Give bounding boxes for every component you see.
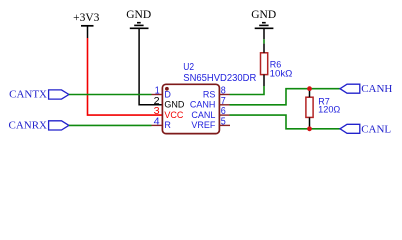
junction dot CANL/R7 (307, 126, 312, 131)
svg-text:CANH: CANH (361, 83, 392, 95)
svg-text:5: 5 (221, 117, 226, 128)
svg-text:CANTX: CANTX (9, 89, 47, 101)
svg-text:VREF: VREF (191, 120, 216, 130)
ground GND (right, above R6) (251, 9, 276, 40)
wire GND (left) to pin 2 (139, 28, 162, 105)
pin 7 stub (CANH) (219, 104, 229, 106)
svg-text:CANH: CANH (190, 100, 216, 110)
R7 top lead (309, 89, 311, 98)
pin 5 stub (VREF, unconnected) (219, 124, 230, 126)
svg-text:120Ω: 120Ω (318, 104, 340, 115)
power port +3V3 (73, 12, 100, 38)
port CANH (340, 83, 392, 95)
R6 bottom lead (263, 75, 265, 86)
wire GND2 to R6 top (263, 39, 265, 43)
resistor R6 (261, 53, 293, 80)
svg-text:10kΩ: 10kΩ (270, 69, 293, 80)
svg-text:VCC: VCC (164, 110, 184, 120)
ground GND (left) (126, 9, 151, 29)
svg-text:D: D (164, 89, 171, 99)
junction dot CANH/R7 (307, 86, 312, 91)
wire pin 6 to CANL port (230, 115, 341, 129)
wire R6 to pin 8 (RS) (230, 86, 265, 95)
svg-text:CANL: CANL (361, 124, 391, 136)
wire +3V3 to pin 3 (VCC) (88, 38, 163, 115)
svg-text:R: R (164, 120, 171, 130)
IC U2 SN65HVD230DR body (162, 62, 256, 134)
svg-text:+3V3: +3V3 (73, 12, 100, 24)
svg-text:CANRX: CANRX (8, 120, 47, 132)
wire CANRX to pin 4 (69, 124, 152, 126)
resistor R7 (306, 96, 340, 117)
R6 top lead (263, 44, 265, 53)
svg-text:U2: U2 (183, 62, 194, 73)
pin 6 stub (CANL) (219, 114, 229, 116)
pin 8 stub (RS) (219, 94, 229, 96)
port CANTX (9, 89, 69, 101)
wire CANTX to pin 1 (69, 94, 152, 96)
pin 1 stub (D) (152, 94, 163, 96)
port CANL (340, 124, 391, 136)
svg-text:SN65HVD230DR: SN65HVD230DR (183, 73, 256, 84)
pin 4 stub (R) (152, 124, 163, 126)
svg-text:GND: GND (251, 9, 276, 21)
svg-text:4: 4 (154, 117, 160, 128)
svg-text:CANL: CANL (191, 110, 215, 120)
wire pin 7 to CANH port (230, 89, 341, 105)
port CANRX (8, 120, 68, 132)
svg-text:GND: GND (164, 100, 185, 110)
R7 bottom lead (309, 117, 311, 128)
svg-text:GND: GND (126, 9, 151, 21)
svg-text:RS: RS (203, 89, 216, 99)
